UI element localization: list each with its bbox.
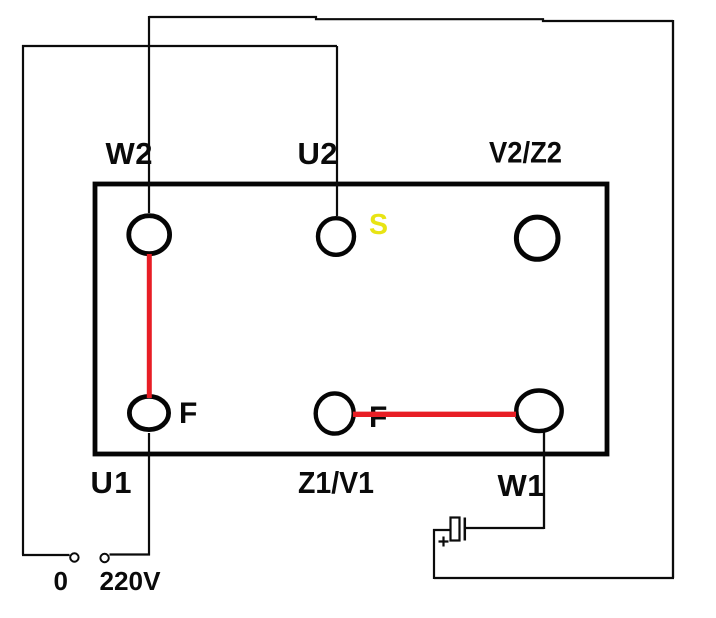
svg-text:U2: U2: [298, 136, 338, 171]
wire W2 top drop: [148, 16, 150, 213]
svg-text:220V: 220V: [100, 566, 162, 596]
svg-text:W1: W1: [498, 468, 545, 503]
terminal box: [95, 184, 607, 454]
wire right drop: [672, 20, 674, 578]
terminal Z1/V1: [316, 393, 354, 433]
terminal U2: [318, 218, 354, 255]
svg-text:F: F: [369, 401, 387, 434]
battery B1 right plate: [464, 518, 467, 541]
wire battery left stub: [433, 529, 451, 531]
red jumper Z1/V1-W1: [353, 412, 516, 417]
svg-text:V2/Z2: V2/Z2: [489, 137, 562, 170]
wire W1 riser: [543, 431, 545, 529]
svg-text:W2: W2: [106, 136, 153, 171]
wire stub from 220V terminal: [110, 553, 151, 555]
terminal V2/Z2: [516, 217, 558, 259]
terminal W1: [516, 391, 561, 432]
node 220V terminal circle: [100, 554, 108, 562]
wire upper-left run: [22, 45, 337, 47]
svg-text:Z1/V1: Z1/V1: [298, 465, 374, 500]
red jumper W2-U1: [147, 254, 152, 398]
svg-text:S: S: [369, 209, 388, 241]
wire U1 bottom drop: [148, 433, 150, 556]
wire left outer drop: [22, 45, 24, 555]
battery plus sign: [439, 537, 449, 547]
wire bottom run: [434, 577, 674, 579]
terminal W2: [129, 216, 170, 254]
terminal U1: [129, 396, 168, 429]
svg-text:U1: U1: [91, 465, 132, 500]
wire top run: [149, 17, 673, 21]
svg-text:F: F: [179, 397, 197, 430]
wire stub to 0 terminal: [22, 554, 70, 556]
wire battery right stub: [466, 527, 544, 529]
battery B1 left plate: [451, 518, 460, 541]
wire battery left riser: [433, 529, 435, 579]
svg-text:0: 0: [54, 566, 68, 596]
node 0 terminal circle: [70, 553, 78, 561]
wire U2 drop: [336, 46, 338, 216]
